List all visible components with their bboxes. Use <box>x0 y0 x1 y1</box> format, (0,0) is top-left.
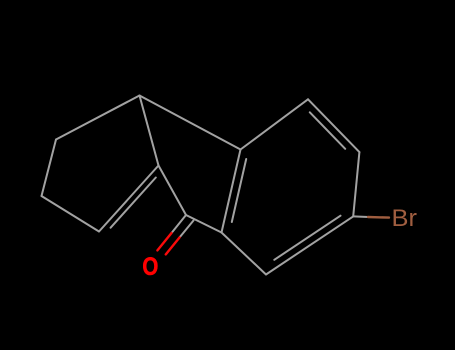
benzene aromatic twin line on L-TL <box>232 159 246 222</box>
ring A wire P4-P5 <box>42 196 100 232</box>
ring A double bond P5=P1 twin line <box>111 178 156 228</box>
benzene wire R-B <box>266 216 353 274</box>
ring B wire TL-L (fused edge with benzene) <box>222 150 241 233</box>
C-Br bond white half <box>353 215 368 218</box>
benzene wire TR-R <box>353 152 359 216</box>
benzene wire B-L <box>222 233 267 275</box>
carbonyl C=O red half of main line <box>157 233 171 250</box>
carbonyl C=O red half of twin line <box>166 238 180 255</box>
svg-text:Br: Br <box>391 206 416 232</box>
svg-text:O: O <box>142 252 158 280</box>
benzene ring C: wire TL-T <box>241 99 309 149</box>
ring B wire C-P1 <box>159 166 187 216</box>
central ring B: wire P2-TL <box>140 96 241 150</box>
benzene aromatic twin line on R-B <box>274 216 340 260</box>
C-Br bond brown half <box>368 216 389 219</box>
ring A wire P3-P4 <box>42 140 57 197</box>
carbonyl C=O white half of twin line <box>180 221 194 238</box>
ring A wire P5-P1 (double bond main line) <box>99 166 159 232</box>
carbonyl C=O white half of main line <box>172 215 187 233</box>
benzene wire T-TR <box>308 99 359 152</box>
benzene aromatic twin line on T-TR <box>310 112 345 149</box>
cyclopentene ring A: wire P1-P2 <box>140 96 159 166</box>
ring A wire P2-P3 <box>56 96 140 140</box>
ring B wire L-C (to carbonyl carbon) <box>186 215 222 233</box>
